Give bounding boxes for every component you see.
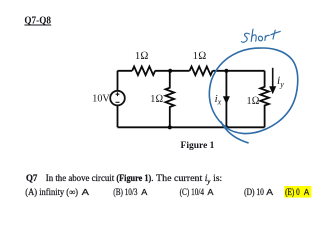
label R1 value 1ohm	[135, 50, 149, 62]
node B junction dot top of short wire	[224, 69, 228, 73]
title Q7-Q8	[24, 15, 51, 26]
polarity minus of V1	[116, 101, 120, 103]
wire short branch	[225, 71, 227, 128]
svg-text:10V: 10V	[92, 92, 109, 104]
svg-text:(C) 10/4: (C) 10/4	[180, 187, 205, 197]
svg-text:(E) 0: (E) 0	[285, 187, 300, 197]
resistor R3 1ohm middle vertical	[166, 71, 175, 128]
svg-text:(D) 10: (D) 10	[244, 187, 264, 197]
svg-text:(B) 10/3: (B) 10/3	[113, 187, 138, 197]
svg-text:Q7: Q7	[26, 173, 38, 183]
svg-text:A: A	[82, 187, 90, 197]
label current iy	[277, 75, 284, 89]
svg-text:A: A	[141, 187, 147, 197]
label R2 value 1ohm	[193, 50, 207, 62]
label V1 value 10V	[92, 92, 109, 104]
svg-text:(Figure 1): (Figure 1)	[116, 173, 151, 183]
node D junction dot bottom of short wire	[224, 125, 228, 129]
answer highlight box on E	[284, 186, 311, 198]
svg-text:Figure 1: Figure 1	[181, 140, 215, 151]
svg-text:is:: is:	[211, 173, 222, 183]
svg-text:A: A	[304, 187, 310, 197]
wire bottom	[118, 126, 265, 128]
voltage source V1 10V	[110, 91, 125, 106]
svg-text:. The current: . The current	[151, 173, 205, 183]
svg-text:1Ω: 1Ω	[247, 95, 260, 107]
resistor R4 1ohm right vertical	[260, 71, 269, 128]
svg-text:A: A	[207, 187, 213, 197]
annotation handwritten word Short (blue)	[241, 29, 280, 42]
svg-text:1Ω: 1Ω	[193, 50, 207, 62]
current arrow iy beside R4	[269, 68, 276, 94]
caption Figure 1	[181, 140, 215, 151]
wire left	[117, 71, 119, 128]
svg-text:(A) infinity (∞): (A) infinity (∞)	[25, 187, 78, 197]
question Q7 text line	[26, 173, 222, 185]
current arrow ix on short wire	[223, 96, 230, 104]
label R3 value 1ohm	[150, 93, 163, 105]
polarity plus of V1	[116, 92, 120, 96]
svg-text:In the above circuit: In the above circuit	[46, 173, 117, 183]
node A junction dot top of R3	[168, 69, 172, 73]
svg-text:1Ω: 1Ω	[135, 50, 149, 62]
svg-text:1Ω: 1Ω	[150, 93, 163, 105]
annotation ellipse circling short and R4 (blue)	[209, 48, 297, 143]
node C junction dot bottom of R3	[168, 125, 172, 129]
svg-text:iy: iy	[277, 75, 284, 89]
label R4 value 1ohm	[247, 95, 260, 107]
svg-text:ix: ix	[215, 93, 222, 107]
answer options line	[25, 187, 309, 197]
label current ix	[215, 93, 222, 107]
resistor R2 1ohm top-right	[190, 67, 213, 76]
svg-text:A: A	[266, 187, 273, 197]
resistor R1 1ohm top-left	[132, 67, 155, 76]
wire top	[118, 70, 265, 72]
